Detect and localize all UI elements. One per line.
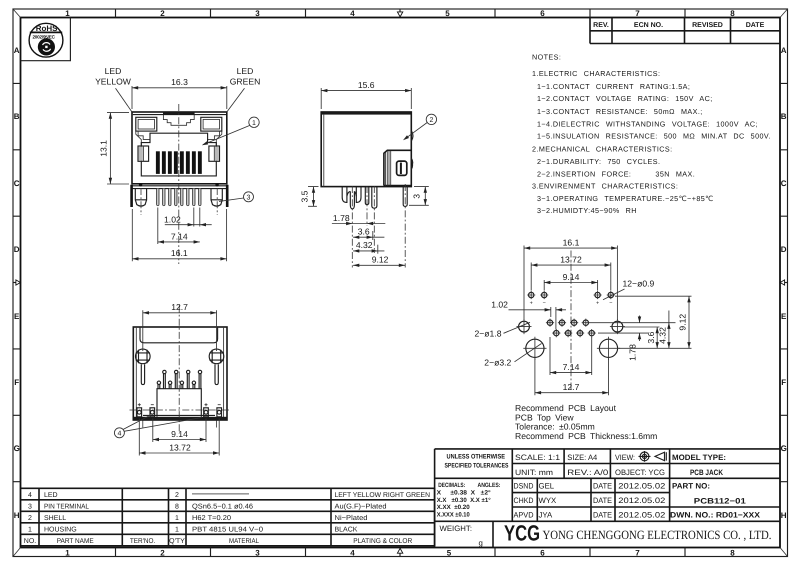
svg-text:8: 8 — [175, 503, 179, 510]
svg-text:−: − — [609, 301, 612, 307]
svg-text:NO.: NO. — [24, 538, 37, 545]
svg-text:PCB JACK: PCB JACK — [690, 468, 723, 477]
svg-text:Recommend PCB Thickness:1.6m: Recommend PCB Thickness:1.6mm — [515, 431, 657, 441]
svg-text:2012.05.02: 2012.05.02 — [618, 482, 665, 491]
svg-text:12.7: 12.7 — [171, 302, 188, 312]
svg-text:4.32: 4.32 — [356, 240, 373, 250]
svg-text:3.6: 3.6 — [646, 331, 656, 343]
svg-text:3.6: 3.6 — [358, 227, 370, 237]
svg-text:DATE: DATE — [593, 510, 612, 519]
svg-text:2: 2 — [28, 515, 32, 522]
svg-text:UNIT: mm: UNIT: mm — [515, 468, 553, 477]
svg-text:REV.: REV. — [593, 22, 609, 29]
svg-text:Q'TY: Q'TY — [169, 538, 185, 545]
svg-text:16.1: 16.1 — [563, 237, 580, 247]
svg-text:TER'NO.: TER'NO. — [130, 538, 156, 545]
svg-text:2: 2 — [160, 549, 165, 558]
svg-text:1.78: 1.78 — [333, 213, 350, 223]
svg-text:−: − — [543, 301, 546, 307]
svg-text:QSn6.5−0.1 ø0.46: QSn6.5−0.1 ø0.46 — [192, 503, 253, 510]
svg-text:ANGLES:: ANGLES: — [478, 482, 501, 489]
svg-text:13.72: 13.72 — [169, 442, 191, 452]
svg-text:4: 4 — [350, 9, 355, 18]
svg-text:H: H — [781, 511, 787, 520]
svg-text:7.14: 7.14 — [171, 231, 188, 241]
svg-text:SPECIFIED TOLERANCES: SPECIFIED TOLERANCES — [445, 463, 509, 470]
svg-text:2−ø3.2: 2−ø3.2 — [484, 357, 511, 367]
svg-text:13.1: 13.1 — [99, 140, 109, 157]
svg-text:12−ø0.9: 12−ø0.9 — [623, 278, 655, 288]
svg-text:A: A — [781, 46, 787, 55]
svg-text:3: 3 — [255, 549, 260, 558]
svg-text:WYX: WYX — [539, 496, 558, 505]
svg-text:1: 1 — [252, 120, 256, 127]
svg-text:g: g — [479, 539, 483, 548]
svg-text:VIEW:: VIEW: — [615, 453, 635, 462]
svg-text:7: 7 — [635, 549, 640, 558]
svg-text:9.14: 9.14 — [171, 429, 188, 439]
svg-text:3: 3 — [28, 503, 32, 510]
svg-text:1−5.INSULATION RESISTANCE: 5: 1−5.INSULATION RESISTANCE: 500 MΩ MIN.AT… — [537, 132, 771, 141]
svg-text:PLATING & COLOR: PLATING & COLOR — [353, 538, 412, 545]
svg-text:JYA: JYA — [539, 510, 554, 519]
svg-text:1: 1 — [65, 549, 70, 558]
svg-text:8: 8 — [730, 9, 735, 18]
svg-text:12.7: 12.7 — [563, 382, 580, 392]
svg-text:1−4.DIELECTRIC WITHSTANDING: 1−4.DIELECTRIC WITHSTANDING VOLTAGE: 100… — [537, 119, 758, 128]
svg-text:LED: LED — [44, 492, 58, 499]
svg-text:X.X ±0.30 X.X ±1°: X.X ±0.30 X.X ±1° — [437, 497, 492, 504]
svg-text:Au(G.F)−Plated: Au(G.F)−Plated — [335, 502, 387, 510]
svg-text:2012.05.02: 2012.05.02 — [618, 496, 665, 505]
svg-text:D: D — [781, 245, 787, 254]
svg-text:E: E — [781, 312, 787, 321]
svg-text:4: 4 — [350, 549, 355, 558]
svg-text:4: 4 — [117, 431, 121, 438]
svg-text:X ±0.38 X ±2°: X ±0.38 X ±2° — [437, 490, 492, 497]
svg-text:+: + — [530, 301, 533, 307]
svg-text:GREEN: GREEN — [230, 77, 261, 87]
svg-text:APVD: APVD — [514, 510, 534, 519]
svg-text:DATE: DATE — [593, 496, 612, 505]
svg-text:Ni−Plated: Ni−Plated — [335, 514, 368, 522]
svg-text:2: 2 — [175, 492, 179, 499]
svg-text:16.3: 16.3 — [171, 77, 188, 87]
svg-text:F: F — [14, 378, 19, 387]
svg-text:15.6: 15.6 — [358, 80, 375, 90]
svg-text:1.ELECTRIC CHARACTERISTICS:: 1.ELECTRIC CHARACTERISTICS: — [532, 69, 660, 78]
svg-text:C: C — [781, 179, 787, 188]
svg-text:YONG CHENGGONG ELECTRONICS: YONG CHENGGONG ELECTRONICS CO. , LTD. — [543, 528, 772, 542]
svg-text:WEIGHT:: WEIGHT: — [440, 524, 473, 533]
svg-text:2: 2 — [429, 117, 433, 124]
svg-text:3.5: 3.5 — [299, 190, 309, 202]
svg-text:2012.05.02: 2012.05.02 — [618, 510, 665, 519]
svg-text:3: 3 — [412, 194, 422, 199]
svg-text:HOUSING: HOUSING — [44, 526, 77, 533]
svg-text:1: 1 — [175, 515, 179, 522]
svg-text:F: F — [781, 378, 786, 387]
svg-text:9.12: 9.12 — [677, 314, 687, 331]
svg-text:13.72: 13.72 — [560, 254, 582, 264]
svg-text:LED: LED — [237, 66, 254, 76]
svg-text:3−1.OPERATING TEMPERATURE.−25: 3−1.OPERATING TEMPERATURE.−25℃~+85℃ — [537, 194, 714, 203]
svg-text:E: E — [14, 312, 20, 321]
svg-text:3−2.HUMIDTY:45−90% RH: 3−2.HUMIDTY:45−90% RH — [537, 206, 637, 215]
svg-text:1−2.CONTACT VOLTAGE RATING:: 1−2.CONTACT VOLTAGE RATING: 150V AC; — [537, 94, 713, 103]
svg-text:5: 5 — [445, 9, 450, 18]
svg-text:7: 7 — [635, 9, 640, 18]
svg-text:1: 1 — [175, 526, 179, 533]
svg-text:NOTES:: NOTES: — [532, 53, 561, 62]
svg-text:1.02: 1.02 — [164, 214, 181, 224]
svg-text:4: 4 — [28, 492, 32, 499]
svg-text:1.02: 1.02 — [491, 299, 508, 309]
svg-text:PCB112−01: PCB112−01 — [694, 496, 747, 505]
svg-text:7.14: 7.14 — [563, 362, 580, 372]
svg-text:PART NAME: PART NAME — [57, 538, 94, 545]
svg-text:B: B — [14, 112, 20, 121]
svg-text:SCALE: 1:1: SCALE: 1:1 — [515, 453, 560, 462]
svg-text:1: 1 — [65, 9, 70, 18]
svg-text:3.ENVIRENMENT CHARACTERISTICS: 3.ENVIRENMENT CHARACTERISTICS: — [532, 182, 678, 191]
svg-text:G: G — [781, 444, 787, 453]
svg-text:D: D — [14, 245, 20, 254]
svg-text:DSND: DSND — [514, 482, 534, 491]
svg-text:A: A — [14, 46, 20, 55]
svg-text:1−1.CONTACT CURRENT RATING:1: 1−1.CONTACT CURRENT RATING:1.5A; — [537, 82, 690, 91]
svg-text:3: 3 — [255, 9, 260, 18]
svg-text:GEL: GEL — [539, 482, 555, 491]
svg-text:G: G — [14, 444, 20, 453]
svg-text:2−2.INSERTION FORCE: 35N: 2−2.INSERTION FORCE: 35N MAX. — [537, 169, 695, 178]
svg-text:MODEL TYPE:: MODEL TYPE: — [672, 453, 726, 462]
svg-text:2.MECHANICAL CHARACTERISTICS:: 2.MECHANICAL CHARACTERISTICS: — [532, 145, 673, 154]
svg-text:16.1: 16.1 — [171, 248, 188, 258]
svg-text:H: H — [14, 511, 20, 520]
svg-text:X.XXX ±0.10: X.XXX ±0.10 — [437, 512, 471, 519]
svg-text:6: 6 — [540, 9, 545, 18]
svg-text:2−ø1.8: 2−ø1.8 — [475, 329, 502, 339]
svg-text:PART NO:: PART NO: — [672, 482, 710, 491]
svg-text:MATERIAL: MATERIAL — [229, 538, 259, 545]
svg-text:REVISED: REVISED — [692, 22, 723, 29]
svg-text:PIN TERMINAL: PIN TERMINAL — [44, 503, 89, 510]
svg-text:2002/95/EC: 2002/95/EC — [32, 34, 55, 39]
svg-text:1−3.CONTACT RESISTANCE: 50mΩ: 1−3.CONTACT RESISTANCE: 50mΩ MAX.; — [537, 107, 703, 116]
svg-text:X.XX ±0.20: X.XX ±0.20 — [437, 504, 471, 511]
svg-text:1.78: 1.78 — [627, 344, 637, 361]
svg-text:+: + — [596, 301, 599, 307]
svg-text:C: C — [14, 179, 20, 188]
svg-text:SIZE: A4: SIZE: A4 — [567, 453, 598, 462]
svg-text:1: 1 — [28, 526, 32, 533]
svg-text:ECN NO.: ECN NO. — [634, 22, 663, 29]
svg-text:9.12: 9.12 — [372, 255, 389, 265]
svg-text:SHELL: SHELL — [44, 515, 66, 522]
svg-text:DATE: DATE — [593, 482, 612, 491]
svg-text:BLACK: BLACK — [335, 526, 358, 533]
svg-text:OBJECT: YCG: OBJECT: YCG — [615, 468, 665, 477]
svg-text:PBT 4815 UL94 V−0: PBT 4815 UL94 V−0 — [192, 526, 263, 533]
svg-text:LEFT YELLOW RIGHT GREEN: LEFT YELLOW RIGHT GREEN — [335, 492, 431, 499]
svg-text:DATE: DATE — [746, 22, 765, 29]
svg-text:DECIMALS:: DECIMALS: — [438, 482, 465, 489]
svg-text:4.32: 4.32 — [657, 327, 667, 344]
svg-text:CHKD: CHKD — [514, 496, 534, 505]
svg-text:9.14: 9.14 — [563, 272, 580, 282]
svg-text:DWN. NO.: RD01−XXX: DWN. NO.: RD01−XXX — [670, 510, 761, 519]
svg-text:6: 6 — [540, 549, 545, 558]
svg-text:5: 5 — [447, 549, 452, 558]
svg-text:B: B — [781, 112, 787, 121]
svg-text:2: 2 — [160, 9, 165, 18]
svg-text:REV.: A/0: REV.: A/0 — [567, 468, 609, 477]
svg-text:8: 8 — [730, 549, 735, 558]
svg-text:3: 3 — [247, 195, 251, 202]
svg-text:H62 T=0.20: H62 T=0.20 — [192, 515, 231, 522]
svg-text:Recommend PCB Layout: Recommend PCB Layout — [515, 403, 617, 413]
svg-text:2−1.DURABILITY: 750 CYCLES.: 2−1.DURABILITY: 750 CYCLES. — [537, 157, 660, 166]
svg-text:YCG: YCG — [504, 521, 540, 546]
svg-text:LED: LED — [105, 66, 122, 76]
svg-text:UNLESS OTHERWISE: UNLESS OTHERWISE — [447, 454, 506, 461]
svg-text:YELLOW: YELLOW — [95, 77, 132, 87]
